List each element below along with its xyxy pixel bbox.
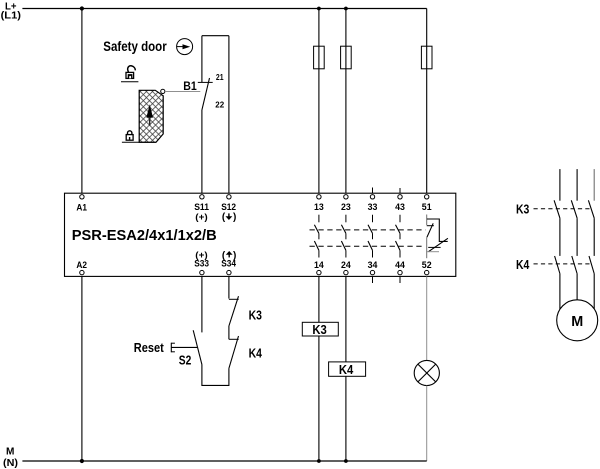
fuse F1 [314, 46, 325, 69]
wire 14 to K3 coil [318, 276, 320, 322]
stub terminal 43 above box [399, 188, 401, 193]
wire 52 to lamp [426, 276, 428, 360]
stub terminal 34 below box [372, 276, 374, 283]
wire between K4 and K3 contacts [228, 326, 230, 339]
svg-text:13: 13 [314, 202, 324, 213]
terminal 51 [422, 195, 432, 213]
contactor K4 main contact pole 3 [589, 256, 594, 309]
fuse F3 [421, 46, 432, 69]
svg-text:23: 23 [341, 202, 351, 213]
line under open padlock [121, 81, 138, 83]
junction top rail / fuse F2 wire [344, 7, 348, 11]
safety door (hatched) [139, 90, 163, 142]
terminal 43 [395, 195, 405, 213]
actuation direction symbol (circle with arrow) [177, 39, 193, 55]
svg-text:33: 33 [368, 202, 378, 213]
svg-text:B1: B1 [183, 81, 197, 93]
svg-text:14: 14 [314, 260, 324, 271]
door actuator pivot circle [161, 89, 165, 93]
svg-text:44: 44 [395, 260, 405, 271]
contactor K4 main contact pole 2 [572, 256, 577, 300]
terminal A1 [76, 195, 87, 214]
svg-text:): ) [233, 212, 236, 223]
svg-text:43: 43 [395, 202, 405, 213]
relay NC contact 51-52 [427, 215, 448, 259]
wire fuse F3 drop to terminal 51 [426, 9, 428, 194]
terminal 33 [368, 195, 378, 213]
junction top rail / A1 wire [80, 6, 84, 10]
terminal A2 [76, 260, 87, 275]
terminal 34 [368, 260, 378, 275]
svg-text:K3: K3 [516, 202, 529, 216]
contactor K3 main contact pole 3 [588, 200, 594, 256]
svg-text:M: M [6, 446, 14, 457]
terminal S34 [221, 250, 236, 275]
wire S11 to B1 contact [201, 110, 203, 193]
manual actuator of S2 [171, 343, 197, 353]
svg-text:(L1): (L1) [1, 10, 21, 21]
terminal S11 [194, 195, 209, 223]
wire B1 upper to bridge [201, 36, 203, 83]
wire A1 drop from L+ rail [81, 9, 83, 194]
svg-text:PSR-ESA2/4x1/1x2/B: PSR-ESA2/4x1/1x2/B [72, 227, 217, 244]
terminal 24 [341, 260, 351, 275]
svg-text:M: M [571, 314, 583, 330]
switch B1 (door position NC contact 21-22) [198, 78, 213, 110]
svg-text:S2: S2 [179, 353, 192, 367]
line door closed position [122, 141, 156, 143]
node M label [3, 446, 18, 469]
svg-text:34: 34 [368, 260, 378, 271]
contact K3 NC (feedback) [229, 296, 239, 326]
mechanical link dashed row 1 [310, 229, 426, 231]
mechanical link dashed row 2 [310, 245, 424, 247]
indicator lamp [414, 360, 439, 385]
contact K4 NC (feedback) [229, 336, 239, 368]
terminal S33 [194, 250, 209, 275]
relay contact 43-44 [396, 215, 401, 258]
motor circuit phase line 2 [576, 169, 578, 201]
svg-text:S33: S33 [194, 259, 209, 270]
svg-text:(N): (N) [3, 458, 18, 469]
switch S2 reset (NO pushbutton) [193, 330, 202, 364]
junction top rail / fuse F1 wire [317, 7, 321, 11]
closed padlock symbol (door closed position) [126, 131, 133, 140]
wire S33 down to S2 [201, 276, 203, 332]
open padlock symbol (door open position) [126, 66, 135, 79]
terminal 44 [395, 260, 405, 275]
actuator link line to B1 [165, 91, 200, 93]
contactor K3 main contact pole 1 [554, 200, 560, 256]
motor M [557, 300, 598, 341]
svg-text:K4: K4 [516, 258, 529, 272]
mechanical link K4 main (dashed) [534, 263, 592, 265]
contactor coil K3 [302, 322, 338, 337]
relay module PSR-ESA2 box [65, 193, 456, 276]
terminal 13 [314, 195, 324, 213]
relay contact 13-14 [314, 215, 319, 258]
door movement arrow [146, 104, 153, 125]
svg-text:K3: K3 [249, 308, 262, 322]
wire fuse F2 drop to terminal 23 [345, 9, 347, 194]
contactor K4 main contact pole 1 [555, 256, 560, 309]
terminal S12 [221, 195, 236, 223]
svg-text:51: 51 [422, 202, 432, 213]
junction bottom rail / K4 wire [344, 459, 348, 463]
wire top supply rail L+ [22, 8, 426, 10]
wire K3 coil to bottom rail [318, 336, 320, 461]
wire bottom return rail M/N [22, 460, 426, 462]
relay contact 23-24 [341, 215, 346, 258]
stub terminal 33 above box [372, 188, 374, 194]
wire A2 to bottom rail [81, 276, 83, 461]
wire S2 to feedback loop bottom [202, 365, 229, 386]
contactor coil K4 [329, 362, 366, 377]
wire bridge down to S12 [228, 36, 230, 194]
junction bottom rail / A2 wire [80, 459, 84, 463]
wire K4 coil to bottom rail [345, 376, 347, 461]
svg-text:A2: A2 [76, 260, 87, 271]
svg-text:K4: K4 [339, 363, 353, 377]
svg-text:52: 52 [422, 260, 432, 271]
mechanical link K3 main (dashed) [534, 208, 592, 210]
wire lamp to bottom rail [426, 386, 428, 461]
relay contact 33-34 [368, 215, 373, 258]
svg-text:22: 22 [215, 99, 224, 109]
svg-text:K4: K4 [249, 347, 262, 361]
motor circuit phase line 3 [593, 169, 595, 201]
svg-text:Reset: Reset [134, 341, 165, 355]
contactor K3 main contact pole 2 [571, 200, 577, 256]
node L+ label [1, 1, 21, 21]
svg-text:A1: A1 [76, 202, 87, 213]
fuse F2 [341, 46, 352, 69]
svg-text:Safety door: Safety door [103, 38, 167, 54]
svg-text:21: 21 [216, 72, 224, 82]
svg-text:24: 24 [341, 260, 351, 271]
svg-text:S34: S34 [221, 259, 236, 270]
svg-text:(+): (+) [195, 212, 207, 223]
wire bridge over B1 [202, 35, 229, 37]
wire 24 to K4 coil [345, 276, 347, 362]
junction bottom rail / K3 wire [317, 459, 321, 463]
motor circuit phase line 1 [559, 169, 561, 201]
wire fuse F1 drop to terminal 13 [318, 9, 320, 194]
terminal 52 [422, 260, 432, 275]
terminal 14 [314, 260, 324, 275]
wire K3 contact to S34 [228, 276, 230, 298]
terminal 23 [341, 195, 351, 213]
stub terminal 44 below box [399, 276, 401, 283]
svg-text:K3: K3 [312, 323, 326, 337]
